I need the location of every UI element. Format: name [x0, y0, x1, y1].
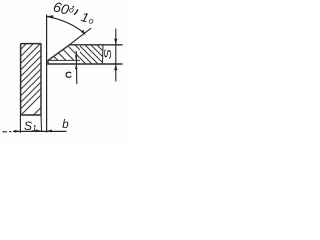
root face boundary line — [48, 59, 80, 61]
bevel extension line (angle leg) — [69, 28, 91, 45]
bottom dimension line (S1 and b) — [13, 130, 67, 132]
svg-text:b: b — [62, 119, 69, 131]
angle dimension arc 60deg — [47, 16, 84, 32]
arc start arrowhead — [47, 15, 54, 18]
svg-text:S: S — [102, 48, 113, 59]
root face (left end) — [47, 60, 49, 64]
extension line below right edge of vertical plate — [40, 115, 43, 132]
label c — [66, 72, 71, 77]
arc end arrowhead — [81, 30, 86, 36]
S1 left arrowhead (tip at plate left edge, pointing right) — [14, 130, 20, 133]
b right arrowhead (tip at 46.5, pointing left) — [46, 130, 52, 133]
bottom edge — [48, 63, 122, 65]
S lower arrowhead (pointing up) — [114, 64, 117, 70]
right broken end of plate — [101, 45, 104, 64]
bevel face — [48, 45, 70, 61]
S upper arrowhead (pointing down) — [114, 39, 117, 45]
c upper arrowhead (pointing down) — [75, 55, 78, 60]
background — [0, 0, 131, 144]
dimension c (root face) vertical line — [75, 51, 78, 84]
top edge — [70, 44, 123, 46]
dimension S (plate thickness) vertical line at right — [115, 29, 117, 82]
horizontal plate hatching — [47, 44, 108, 72]
extension line below left edge of vertical plate — [19, 115, 21, 133]
extension line (left face of right part, vertical leg of angle, b datum) — [46, 15, 48, 133]
horizontal plate (right part, thickness S) outline with 60deg bevel — [48, 45, 122, 64]
vertical plate (left part, thickness S1) outline — [21, 44, 41, 115]
leader dashes at far left — [3, 131, 8, 133]
vertical plate hatching — [14, 34, 45, 129]
b left arrowhead (tip at 41, pointing right) — [36, 129, 42, 132]
angle value text 60deg +-1deg — [52, 0, 95, 26]
c lower arrowhead (pointing up) — [75, 64, 78, 69]
